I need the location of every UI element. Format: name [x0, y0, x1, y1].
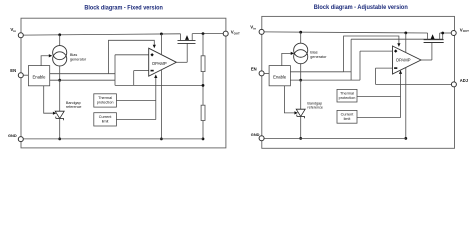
wire enable out A — [290, 71, 343, 73]
wire ADJ feedback horizontal — [376, 83, 452, 85]
node bandgap ground — [299, 137, 302, 140]
wire current limit out — [116, 119, 155, 121]
wire to opamp + input — [360, 50, 393, 52]
wire up to opamp supply — [109, 40, 155, 73]
svg-text:reference: reference — [66, 105, 82, 109]
arrow into opamp top — [397, 43, 400, 47]
wire GND rail — [264, 137, 406, 139]
diode bandgap zener — [296, 109, 305, 116]
IC boundary box — [21, 18, 226, 148]
svg-text:limit: limit — [102, 119, 110, 123]
current limit block — [337, 110, 357, 123]
wire protection to opamp — [400, 74, 402, 118]
wire bandgap bottom — [300, 116, 302, 138]
transistor pass PMOS — [424, 42, 444, 44]
wire GND rail — [23, 138, 203, 140]
node bias tap on Vin rail — [299, 31, 302, 34]
wire Vout line — [192, 33, 223, 35]
bias generator (current source symbol) — [53, 46, 67, 60]
wire enable out A — [50, 73, 115, 75]
svg-text:limit: limit — [344, 117, 352, 121]
svg-text:protection: protection — [97, 100, 114, 104]
transistor arrow — [431, 34, 435, 39]
wire thermal protection out — [116, 99, 155, 101]
current limit block — [94, 113, 117, 126]
transistor arrow — [185, 35, 189, 40]
wire sense riser — [350, 39, 352, 80]
svg-text:OPAMP: OPAMP — [152, 61, 167, 66]
svg-text:protection: protection — [339, 96, 356, 100]
wire divider top — [202, 34, 204, 56]
terminal EN — [259, 71, 264, 76]
wire enable to bias generator — [282, 53, 291, 65]
node feedback tap — [202, 84, 205, 87]
wire Vin rail — [23, 34, 181, 35]
wire jog A to sense riser — [344, 71, 352, 73]
wire divider bottom — [202, 121, 204, 139]
enable block U-EN — [28, 66, 49, 86]
arrow into opamp top — [153, 45, 156, 49]
arrow into bias generator — [49, 54, 53, 57]
wire bias generator bottom — [300, 64, 302, 80]
wire minus riser — [375, 68, 377, 84]
wire opamp ground — [160, 70, 162, 139]
node bias tap on Vin rail — [58, 33, 61, 36]
arrow into opamp bottom — [399, 70, 402, 74]
svg-text:GND: GND — [251, 132, 260, 137]
wire gate riser — [186, 43, 188, 62]
wire to opamp - input — [376, 67, 393, 69]
svg-text:Block diagram - Adjustable ver: Block diagram - Adjustable version — [314, 4, 408, 11]
terminal GND — [259, 136, 264, 141]
terminal GND — [18, 137, 23, 142]
wire bias generator top — [59, 35, 61, 46]
resistor R1 — [201, 56, 205, 72]
transistor pass PMOS — [178, 42, 196, 44]
node bandgap ground — [58, 138, 61, 141]
wire enable to bias generator — [41, 56, 49, 66]
wire up to opamp supply — [344, 36, 399, 72]
arrow into bandgap — [53, 112, 57, 115]
wire minus riser — [133, 71, 135, 86]
opamp + marker — [150, 53, 153, 56]
op-amp U1 — [149, 48, 177, 76]
wire enable to bandgap — [44, 86, 53, 113]
node divider top — [202, 32, 205, 35]
wire Vin rail — [264, 32, 428, 33]
wire Vout line — [440, 32, 452, 34]
wire EN to Enable — [23, 74, 28, 76]
svg-text:generator: generator — [310, 55, 327, 59]
wire bias generator bottom — [59, 66, 61, 80]
svg-text:Enable: Enable — [273, 75, 287, 80]
arrow into opamp bottom — [154, 74, 157, 78]
wire opamp supply drop — [405, 33, 407, 53]
opamp - marker — [394, 67, 397, 69]
wire opamp output — [176, 61, 187, 63]
wire gate riser — [431, 43, 433, 61]
bias generator (current source symbol) — [294, 43, 308, 57]
svg-text:Bias: Bias — [70, 53, 77, 57]
svg-text:generator: generator — [70, 58, 87, 62]
node opamp supply tap — [404, 32, 407, 35]
thermal protection block — [337, 89, 357, 102]
wire protection to opamp — [155, 78, 157, 120]
wire current limit out — [357, 117, 401, 119]
wire opamp ground — [405, 68, 407, 139]
wire enable out B — [50, 79, 115, 81]
thermal protection block — [94, 94, 117, 107]
svg-text:Current: Current — [341, 113, 355, 117]
svg-text:EN: EN — [10, 68, 16, 73]
opamp + marker — [394, 49, 397, 52]
wire divider middle — [202, 72, 204, 106]
wire opamp output — [421, 59, 432, 61]
wire bandgap top — [300, 80, 302, 109]
wire opamp supply drop — [160, 34, 162, 55]
svg-text:Bias: Bias — [310, 51, 317, 55]
wire enable out B — [290, 79, 360, 81]
node Vout sense tap — [441, 32, 444, 35]
svg-text:Current: Current — [99, 115, 113, 119]
terminal Vin — [18, 33, 23, 38]
svg-text:Thermal: Thermal — [98, 96, 112, 100]
svg-text:Enable: Enable — [32, 75, 46, 80]
wire thermal protection out — [357, 96, 401, 98]
svg-text:EN: EN — [251, 67, 257, 72]
svg-text:Block diagram - Fixed version: Block diagram - Fixed version — [84, 4, 163, 11]
wire to opamp - input — [134, 70, 149, 72]
resistor R2 — [201, 105, 205, 120]
arrow into bias generator — [291, 52, 295, 55]
opamp - marker — [151, 70, 154, 72]
terminal EN — [18, 73, 23, 78]
svg-text:Thermal: Thermal — [340, 92, 354, 96]
wire cross riser — [114, 55, 116, 86]
wire mid horizontal to divider tap — [115, 84, 203, 86]
wire enable to bandgap — [284, 86, 294, 113]
IC boundary box — [262, 16, 455, 148]
node divider ground — [202, 138, 205, 141]
node opamp ground — [160, 138, 163, 141]
enable block U-EN — [269, 66, 290, 86]
terminal Vin — [259, 29, 264, 34]
arrow into bandgap — [294, 111, 298, 114]
svg-text:ADJ: ADJ — [460, 78, 468, 83]
wire bias generator top — [300, 32, 302, 43]
node bias/enable junction — [58, 79, 61, 82]
terminal Vout — [451, 31, 456, 36]
node bias/enable junction — [299, 79, 302, 82]
wire Vout sense path — [351, 33, 443, 39]
diode bandgap zener — [55, 111, 64, 118]
node opamp supply tap — [160, 33, 163, 36]
svg-text:reference: reference — [307, 105, 323, 109]
wire ADJ feedback riser — [359, 51, 361, 80]
wire to opamp + input — [115, 54, 149, 56]
node opamp ground — [404, 137, 407, 140]
svg-text:GND: GND — [8, 133, 17, 138]
svg-text:OPAMP: OPAMP — [396, 58, 411, 63]
op-amp U2 — [393, 46, 422, 74]
wire EN to Enable — [264, 72, 269, 74]
wire bandgap top — [59, 80, 61, 111]
terminal ADJ — [451, 82, 456, 87]
wire bandgap bottom — [59, 118, 61, 138]
terminal Vout — [223, 31, 228, 36]
